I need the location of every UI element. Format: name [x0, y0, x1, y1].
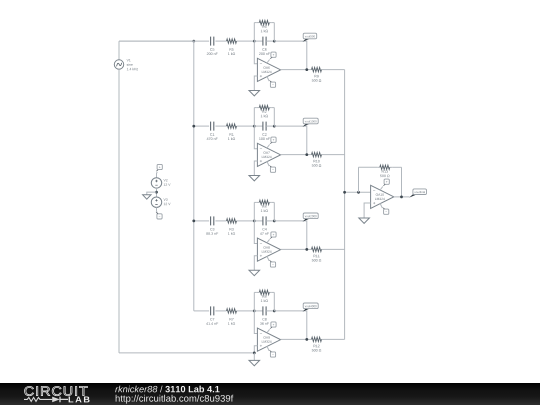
wire V+ pin — [267, 239, 270, 243]
CircuitLab logo: CIRCUIT outline — [25, 386, 88, 395]
resistor R3 1 kOhm — [224, 219, 239, 235]
wire summing bus vertical — [344, 70, 346, 340]
junction at input bus — [192, 125, 195, 128]
wire input — [194, 220, 209, 222]
wire — [266, 220, 274, 222]
V- supply flag (V3) — [156, 212, 162, 219]
wire noninverting pin to ground — [254, 76, 257, 91]
wire V+ pin — [267, 329, 270, 333]
node flag vout2000 — [303, 213, 319, 222]
wire V- pin — [267, 346, 269, 351]
wire feedback loop left — [253, 108, 255, 127]
wire to output corner — [274, 41, 307, 70]
wire — [254, 40, 263, 42]
resistor R5 1 kOhm — [224, 39, 239, 55]
wire noninverting to ground — [364, 203, 371, 218]
wire V- pin — [267, 256, 269, 261]
junction supplies mid — [155, 191, 158, 194]
wire — [254, 201, 256, 203]
footer title text — [115, 386, 219, 393]
wire — [239, 220, 254, 222]
wire — [254, 107, 256, 109]
wire V+ pin — [267, 145, 270, 149]
wire — [266, 40, 274, 42]
wire V+ pin — [380, 187, 383, 191]
op-amp OA9 LM324 — [257, 328, 280, 351]
wire V+ pin — [267, 60, 270, 64]
logo resistor squiggle — [24, 397, 52, 401]
capacitor C2 100 nF (feedback) — [259, 122, 270, 140]
junction feedback right — [273, 125, 276, 128]
wire — [359, 166, 378, 168]
resistor R11 500 Ohm — [309, 247, 324, 261]
ground — [143, 195, 151, 200]
wire noninverting pin to ground — [254, 256, 257, 270]
ground — [359, 218, 370, 223]
wire — [253, 353, 255, 361]
capacitor C7 41.4 nF — [206, 306, 218, 324]
wire input bus vertical — [193, 41, 195, 311]
junction output node — [305, 153, 308, 156]
wire feedback loop right — [273, 108, 275, 127]
wire — [239, 40, 254, 42]
wire noninverting pin to ground — [254, 161, 257, 176]
resistor R4 1 kOhm (feedback) — [257, 200, 272, 212]
wire to output corner — [274, 311, 307, 340]
wire op-amp output — [281, 338, 309, 340]
resistor R7 1 kOhm — [224, 309, 239, 325]
wire to inverting pin — [254, 311, 257, 334]
op-amp OA8 LM324 — [257, 238, 280, 261]
wire — [254, 22, 256, 24]
wire top from source — [119, 40, 194, 42]
junction feedback right — [273, 40, 276, 43]
wire — [156, 172, 159, 178]
logo diode — [52, 397, 60, 403]
wire feedback loop left — [253, 202, 255, 221]
resistor R8 1 kOhm (feedback) — [257, 290, 272, 302]
op-amp OA6 LM324 — [257, 58, 280, 81]
junction output node — [305, 68, 308, 71]
wire summing input — [345, 191, 371, 193]
junction inverting node — [253, 40, 256, 43]
wire feedback loop right — [273, 202, 275, 221]
junction top of bus — [192, 40, 195, 43]
wire — [272, 107, 275, 109]
wire between supplies — [156, 188, 158, 197]
wire V- pin — [380, 203, 382, 208]
capacitor C8 36 nF (feedback) — [260, 306, 269, 324]
wire — [272, 201, 275, 203]
wire V- pin — [267, 161, 269, 166]
wire bottom rail — [119, 352, 254, 354]
resistor R6 1 kOhm (feedback) — [257, 20, 272, 32]
capacitor C1 470 nF — [207, 122, 218, 140]
wire to summing bus — [324, 69, 345, 71]
wire V- pin — [267, 76, 269, 81]
node flag vout1000 — [303, 118, 319, 127]
wire feedback left — [358, 167, 360, 192]
node flag voutfinal — [409, 189, 426, 198]
resistor R13 500 Ohm (feedback) — [377, 165, 392, 177]
junction output node — [305, 248, 308, 251]
wire to summing bus — [324, 248, 345, 250]
wire — [254, 310, 263, 312]
wire — [215, 40, 224, 42]
V- supply flag — [269, 260, 276, 267]
wire to inverting pin — [254, 126, 257, 149]
junction feedback stub — [357, 191, 360, 194]
junction inverting node — [253, 125, 256, 128]
wire — [254, 291, 256, 293]
wire — [266, 310, 274, 312]
wire — [254, 220, 263, 222]
capacitor C3 88.3 nF — [206, 216, 218, 234]
ground — [249, 360, 260, 365]
wire feedback right — [401, 167, 403, 197]
V- supply flag — [269, 80, 276, 87]
resistor R2 1 kOhm (feedback) — [257, 105, 272, 117]
wire — [392, 166, 401, 168]
wire left rail — [118, 69, 120, 353]
wire to output corner — [274, 221, 307, 250]
wire — [239, 310, 254, 312]
V+ supply flag — [270, 322, 277, 329]
junction bottom rail — [253, 352, 256, 355]
V- supply flag — [269, 350, 276, 357]
wire to summing bus — [324, 154, 345, 156]
capacitor C5 200 nF — [207, 37, 218, 55]
capacitor C4 47 nF (feedback) — [260, 216, 269, 234]
wire feedback loop right — [273, 23, 275, 41]
wire — [156, 207, 159, 212]
V+ supply flag (V2) — [156, 164, 163, 171]
V+ supply flag — [270, 232, 277, 239]
node flag vout500 — [303, 33, 317, 42]
wire feedback loop left — [253, 292, 255, 311]
wire to output corner — [274, 126, 307, 155]
op-amp OA10 LM324 — [371, 185, 394, 208]
wire output — [394, 196, 410, 198]
junction output node — [305, 338, 308, 341]
voltage source V2 12 V — [151, 178, 170, 188]
junction feedback right — [273, 310, 276, 313]
V- supply flag — [382, 207, 389, 214]
wire — [266, 125, 274, 127]
junction bus tap — [343, 191, 346, 194]
wire input — [194, 125, 209, 127]
resistor R1 1 kOhm — [224, 124, 239, 140]
wire to ground — [147, 192, 157, 195]
V- supply flag — [269, 165, 276, 172]
voltage source V3 12 V — [151, 197, 170, 207]
capacitor C6 200 nF (feedback) — [259, 37, 270, 55]
footer url text — [116, 395, 234, 404]
V+ supply flag — [383, 179, 390, 186]
wire input — [194, 310, 209, 312]
wire op-amp output — [281, 154, 309, 156]
wire feedback loop left — [253, 23, 255, 41]
junction at input bus — [192, 220, 195, 223]
wire to inverting pin — [254, 41, 257, 64]
wire op-amp output — [281, 248, 309, 250]
logo LAB text — [69, 396, 90, 402]
ground — [249, 176, 260, 181]
V+ supply flag — [270, 52, 277, 59]
junction feedback right — [273, 220, 276, 223]
op-amp OA7 LM324 — [257, 143, 280, 166]
wire — [118, 41, 120, 60]
ground — [249, 270, 260, 275]
voltage source V1 sine 1.4 kHz — [114, 59, 138, 70]
wire — [239, 125, 254, 127]
V+ supply flag — [270, 137, 277, 144]
wire feedback loop right — [273, 292, 275, 311]
resistor R9 500 Ohm — [309, 67, 324, 81]
node flag vout4000 — [303, 303, 319, 312]
junction inverting node — [253, 310, 256, 313]
junction inverting node — [253, 220, 256, 223]
junction output feedback — [400, 195, 403, 198]
wire — [215, 310, 224, 312]
wire — [254, 125, 263, 127]
resistor R10 500 Ohm — [309, 152, 324, 166]
wire — [272, 291, 275, 293]
wire — [272, 22, 275, 24]
wire — [215, 220, 224, 222]
wire input — [119, 40, 209, 42]
wire to summing bus — [324, 338, 345, 340]
wire to inverting pin — [254, 221, 257, 244]
wire op-amp output — [281, 69, 309, 71]
ground — [249, 91, 260, 96]
resistor R12 500 Ohm — [309, 337, 324, 351]
wire — [215, 125, 224, 127]
wire noninverting pin to ground — [254, 346, 257, 353]
